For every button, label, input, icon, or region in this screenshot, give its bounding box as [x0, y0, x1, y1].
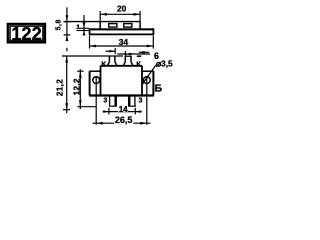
dimension 12.2 arrow top: [79, 71, 82, 77]
svg-text:К: К: [101, 59, 106, 68]
dimension 1 arrow lower: [83, 31, 86, 36]
dimension 5.8 arrow bottom: [66, 35, 69, 41]
dimension 14 tick right: [134, 108, 136, 115]
pin left upper segment: [107, 56, 117, 66]
dimension 20 line: [100, 13, 140, 15]
svg-text:5,8: 5,8: [55, 19, 62, 30]
dimension 34 extension right: [152, 36, 154, 49]
dimension 26.5 arrow right: [140, 122, 147, 125]
flange bottom edge: [89, 94, 154, 96]
dimension 26.5 arrow left: [96, 122, 103, 125]
svg-text:⌀3,5: ⌀3,5: [156, 59, 173, 69]
dimension 20 extension left: [99, 11, 101, 22]
dimension 1 text: [77, 25, 79, 29]
dimension 21.2 line: [66, 48, 68, 51]
dimension 6 tick B: [124, 51, 126, 57]
auxiliary arrow near 6: [139, 51, 149, 53]
pin right lower segment: [128, 96, 136, 106]
svg-text:3: 3: [103, 98, 107, 105]
leader line dia 3.5: [142, 65, 156, 84]
svg-text:26,5: 26,5: [115, 115, 133, 125]
pin tops reference line: [62, 55, 123, 57]
pin right upper segment: [123, 56, 133, 66]
dimension 34 arrow right: [147, 45, 154, 48]
dimension 34 arrow left: [90, 45, 97, 48]
mounting hole left: [93, 77, 100, 84]
dimension 5.8 bottom tick: [64, 34, 71, 36]
dimension 21.2 arrow top: [65, 56, 68, 62]
plate top thick edge: [89, 28, 154, 30]
body mid-section top edge: [101, 65, 143, 67]
hole right centerline: [146, 76, 148, 124]
dimension 34 extension left: [89, 36, 91, 49]
hole left centerline: [95, 76, 97, 124]
dimension 14 line: [103, 111, 142, 113]
dimension 26.5 line: [93, 122, 151, 124]
dimension 21.2 bottom tick: [63, 109, 70, 111]
plate right edge: [152, 28, 154, 35]
lid right edge: [139, 22, 141, 29]
pin left lower segment: [109, 96, 117, 106]
dimension 12.2 bottom tick: [77, 106, 96, 108]
plate left edge: [89, 28, 91, 35]
svg-text:12,2: 12,2: [72, 78, 81, 95]
svg-text:14: 14: [119, 105, 128, 114]
dimension 14 arrow left: [103, 110, 109, 113]
short edge mark above K right: [137, 55, 141, 57]
plate bottom edge: [89, 33, 154, 35]
dimension 1 bottom tick: [77, 30, 90, 32]
dimension 5.8 line: [66, 7, 68, 41]
flange left edge: [89, 71, 91, 95]
svg-text:21,2: 21,2: [56, 79, 65, 96]
flange right edge: [152, 71, 154, 95]
flange top right: [142, 70, 154, 72]
dimension 12.2 line: [79, 69, 81, 109]
dimension 6 arrow B: [126, 53, 132, 56]
dimension 1 line: [83, 15, 85, 36]
dimension 6 arrow A: [109, 50, 115, 53]
dimension 14 tick left: [108, 108, 110, 115]
svg-text:20: 20: [117, 4, 127, 14]
dimension 6 tick A: [114, 48, 116, 54]
svg-text:34: 34: [119, 37, 129, 47]
dimension 6 line A: [106, 50, 116, 52]
dimension 1 arrow upper: [83, 22, 86, 28]
side view top line: [64, 21, 141, 23]
dimension 12.2 arrow bottom: [79, 100, 82, 106]
svg-text:К: К: [136, 59, 141, 68]
lid left edge: [99, 22, 101, 29]
flange top left: [89, 70, 100, 72]
figure number box 122: [8, 23, 45, 44]
dimension 6 line B: [117, 53, 150, 55]
dimension 12.2 top tick: [77, 70, 83, 72]
body mid-section right edge: [141, 66, 143, 96]
dimension 20 extension right: [139, 11, 141, 22]
body mid-section left edge: [100, 66, 102, 96]
svg-text:122: 122: [11, 23, 42, 44]
dimension 21.2 arrow bottom: [65, 103, 68, 109]
dimension 26.5 text: [114, 115, 133, 125]
slot 1: [109, 24, 117, 28]
mounting hole right: [143, 77, 150, 84]
dimension 14 arrow right: [135, 110, 141, 113]
dimension 34 line: [90, 45, 154, 47]
dimension 20 arrow right: [134, 13, 141, 16]
slot 2: [124, 24, 132, 28]
svg-text:Б: Б: [155, 84, 163, 95]
dimension 1 top tick: [77, 27, 90, 29]
dimension 14 text: [118, 105, 128, 114]
dimension 5.8 top tick: [64, 21, 71, 23]
svg-text:3: 3: [139, 98, 143, 105]
dimension 20 arrow left: [100, 13, 107, 16]
dimension 5.8 arrow top: [66, 15, 69, 21]
